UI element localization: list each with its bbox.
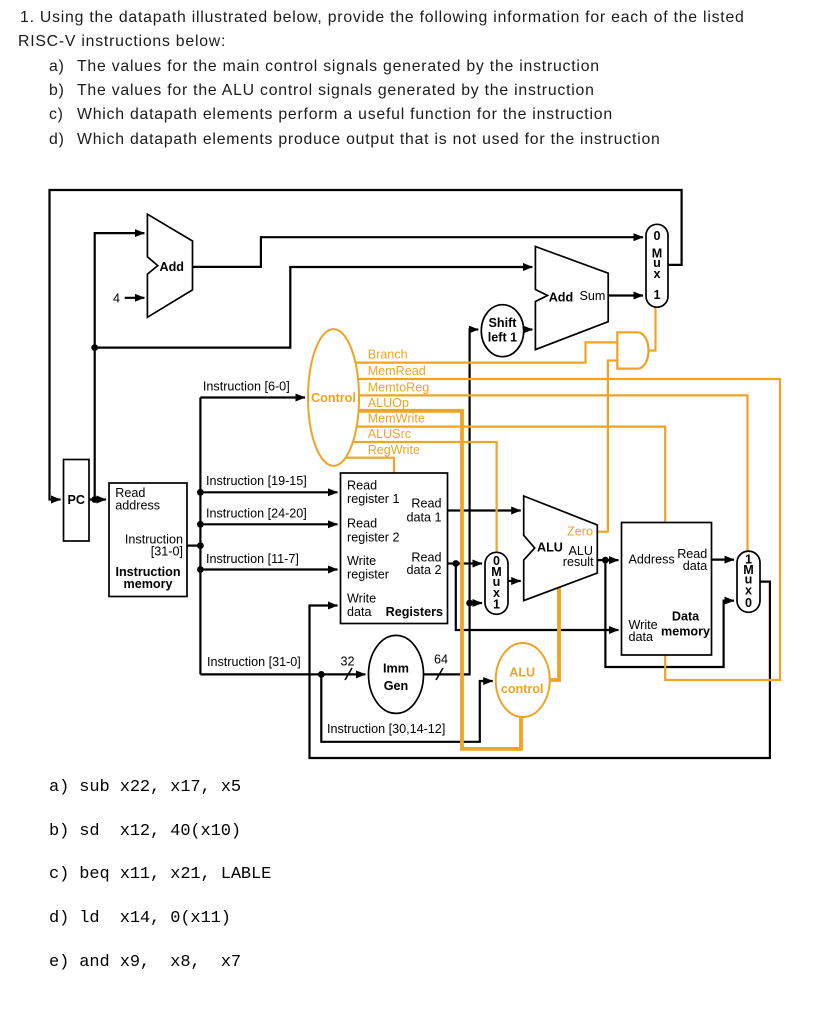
wire PC to Add-Sum upper input [95, 267, 533, 348]
wire instruction bus vertical [199, 398, 201, 675]
svg-text:x: x [653, 267, 660, 281]
node bus tap 19-15 [197, 489, 204, 496]
ALU main [524, 496, 598, 601]
svg-text:data 1: data 1 [406, 511, 441, 525]
svg-text:[31-0]: [31-0] [151, 544, 183, 558]
svg-text:result: result [563, 555, 594, 569]
node bus tap 11-7 [197, 566, 204, 573]
node imm branch junction [318, 671, 325, 678]
AND gate branch [617, 332, 648, 368]
svg-text:Address: Address [629, 552, 675, 566]
wire Data memory read data to Mux2 input 1 [712, 558, 735, 560]
wire Imm branch to Mux1 input 1 [470, 602, 482, 604]
svg-text:Read: Read [347, 517, 377, 531]
svg-text:ALU: ALU [537, 541, 563, 555]
svg-text:Registers: Registers [386, 605, 443, 619]
svg-text:1: 1 [653, 288, 660, 302]
svg-text:ALUOp: ALUOp [368, 396, 409, 410]
wire Imm Gen output to Shift left 1 [424, 330, 479, 675]
svg-text:MemRead: MemRead [368, 364, 426, 378]
svg-text:Instruction [24-20]: Instruction [24-20] [206, 507, 307, 521]
wire ALU control output to ALU [550, 587, 559, 680]
wire MemtoReg control signal to Mux2 select [334, 395, 748, 551]
svg-text:0: 0 [745, 596, 752, 610]
wire ALUOp control signal to ALU control [334, 411, 521, 749]
svg-text:Add: Add [160, 260, 184, 274]
wire PC up to Add [95, 233, 145, 499]
svg-text:RegWrite: RegWrite [368, 443, 420, 457]
instruction memory block [109, 483, 187, 597]
svg-text:left 1: left 1 [488, 331, 517, 345]
svg-text:Data: Data [672, 609, 700, 623]
svg-text:Branch: Branch [368, 348, 408, 362]
ALU control unit ellipse [496, 643, 550, 717]
svg-text:Add: Add [549, 291, 573, 305]
wire AND gate output to Mux0 select [649, 308, 656, 351]
wire Add output to Mux0 input 0 [193, 237, 644, 267]
instruction listing [49, 778, 241, 797]
wire constant 4 into Add [125, 297, 145, 299]
svg-text:1: 1 [493, 598, 500, 612]
wire Instruction [30,14-12] to ALU control [321, 674, 492, 741]
node ALU result branch [602, 557, 609, 564]
svg-text:Read: Read [347, 479, 377, 493]
svg-text:MemtoReg: MemtoReg [368, 381, 430, 395]
wire Mux1 output to ALU [508, 580, 521, 582]
svg-text:Sum: Sum [580, 289, 606, 303]
adder Add (PC+4) [147, 214, 192, 317]
registers block [341, 473, 448, 624]
slash 64 [436, 668, 443, 680]
data memory block [622, 523, 712, 656]
mux2 after data memory [737, 551, 760, 612]
wire Instruction [6-0] to Control [200, 396, 305, 398]
mux1 before ALU [485, 552, 508, 614]
wire RegWrite control signal to Registers top [334, 458, 394, 473]
svg-text:64: 64 [434, 653, 448, 667]
node read data 2 branch [452, 560, 459, 567]
svg-text:memory: memory [661, 624, 710, 638]
svg-text:Read: Read [411, 550, 441, 564]
wire Branch control signal to AND gate [334, 342, 617, 362]
svg-text:register 1: register 1 [347, 492, 400, 506]
svg-text:Imm: Imm [383, 661, 409, 675]
svg-text:Control: Control [311, 391, 356, 405]
question text [20, 9, 745, 27]
node bus entry [197, 542, 204, 549]
wire Read data 2 branch to Write data of memory [456, 564, 619, 631]
svg-text:Write: Write [347, 554, 376, 568]
node bus tap 24-20 [197, 521, 204, 528]
svg-text:control: control [501, 682, 544, 696]
wire Add-Sum output to Mux0 input 1 [608, 294, 643, 296]
shift left 1 unit [481, 305, 523, 357]
wire Instruction [11-7] to Write register [200, 568, 337, 570]
svg-text:address: address [115, 498, 160, 512]
wire Read data 2 to Mux1 input 0 [448, 562, 483, 564]
svg-text:Instruction [19-15]: Instruction [19-15] [206, 474, 307, 488]
wire Zero output to AND gate [597, 361, 617, 532]
wire Shift left 1 output to Add-Sum [524, 328, 533, 330]
wire Read data 1 to ALU [448, 509, 521, 511]
wire ALU result to Data memory address [597, 559, 618, 561]
svg-text:data: data [347, 605, 372, 619]
svg-text:Instruction [30,14-12]: Instruction [30,14-12] [327, 722, 445, 736]
svg-text:Read: Read [411, 496, 441, 510]
adder Add Sum (branch target) [535, 247, 608, 350]
node PC branch to Add-Sum [91, 344, 98, 351]
wire PC feedback loop from mux0 output [50, 190, 682, 500]
svg-text:MemWrite: MemWrite [368, 412, 425, 426]
svg-text:Zero: Zero [567, 524, 593, 538]
wire Mux2 output loop to Registers write data [310, 582, 770, 758]
node PC output junction [91, 496, 98, 503]
wire Instruction [19-15] to Read register 1 [200, 491, 337, 493]
svg-text:data: data [683, 559, 708, 573]
control unit ellipse [308, 329, 359, 466]
svg-text:32: 32 [340, 655, 354, 669]
wire MemWrite control signal to Data memory top [334, 427, 665, 523]
imm gen unit [369, 635, 424, 713]
svg-text:Write: Write [347, 591, 376, 605]
PC register [64, 460, 90, 542]
svg-text:Gen: Gen [384, 679, 409, 693]
svg-text:data: data [629, 630, 654, 644]
svg-text:memory: memory [124, 577, 173, 591]
svg-text:4: 4 [113, 292, 120, 306]
wire ALUSrc control signal to Mux1 select [334, 442, 497, 554]
svg-text:Shift: Shift [489, 316, 518, 330]
svg-text:Instruction [31-0]: Instruction [31-0] [207, 655, 301, 669]
wire ALU result branch to Mux2 input 0 [605, 560, 734, 667]
svg-text:ALUSrc: ALUSrc [368, 427, 411, 441]
wire Instruction [31-0] to Imm Gen [200, 673, 365, 675]
wire MemRead control signal to Data memory bottom [334, 379, 780, 680]
wire PC to instruction memory [89, 498, 106, 500]
svg-text:Instruction [6-0]: Instruction [6-0] [203, 379, 290, 393]
svg-text:PC: PC [67, 493, 85, 507]
svg-text:ALU: ALU [509, 666, 535, 680]
node imm to mux branch [466, 600, 473, 607]
svg-text:Instruction [11-7]: Instruction [11-7] [206, 552, 299, 566]
svg-text:register 2: register 2 [347, 530, 400, 544]
slash 32 [345, 668, 352, 680]
svg-text:data 2: data 2 [406, 563, 441, 577]
wire instruction memory output to bus [187, 544, 200, 546]
svg-text:0: 0 [653, 229, 660, 243]
wire Instruction [24-20] to Read register 2 [200, 523, 337, 525]
mux0 top right [646, 224, 668, 307]
svg-text:register: register [347, 567, 389, 581]
